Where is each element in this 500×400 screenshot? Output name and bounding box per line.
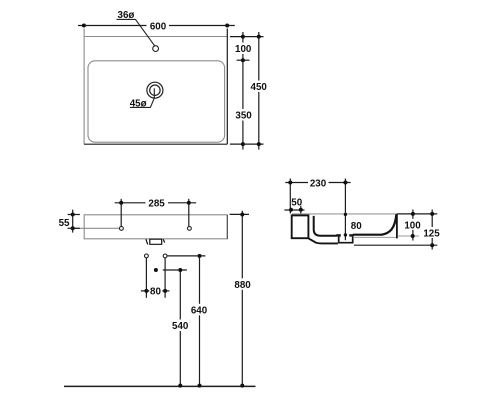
svg-text:100: 100 bbox=[235, 44, 252, 55]
svg-text:45ø: 45ø bbox=[130, 98, 147, 109]
svg-text:125: 125 bbox=[423, 229, 440, 240]
svg-text:350: 350 bbox=[235, 111, 252, 122]
svg-text:880: 880 bbox=[234, 280, 251, 291]
svg-text:285: 285 bbox=[148, 199, 165, 210]
svg-text:50: 50 bbox=[291, 197, 302, 208]
svg-text:540: 540 bbox=[172, 321, 189, 332]
svg-text:80: 80 bbox=[150, 287, 161, 298]
svg-text:450: 450 bbox=[251, 82, 268, 93]
svg-text:100: 100 bbox=[404, 221, 421, 232]
svg-text:36ø: 36ø bbox=[118, 10, 135, 21]
svg-text:55: 55 bbox=[59, 218, 70, 229]
svg-text:640: 640 bbox=[191, 305, 208, 316]
svg-text:80: 80 bbox=[351, 221, 362, 232]
svg-text:230: 230 bbox=[310, 178, 327, 189]
svg-text:600: 600 bbox=[150, 21, 167, 32]
